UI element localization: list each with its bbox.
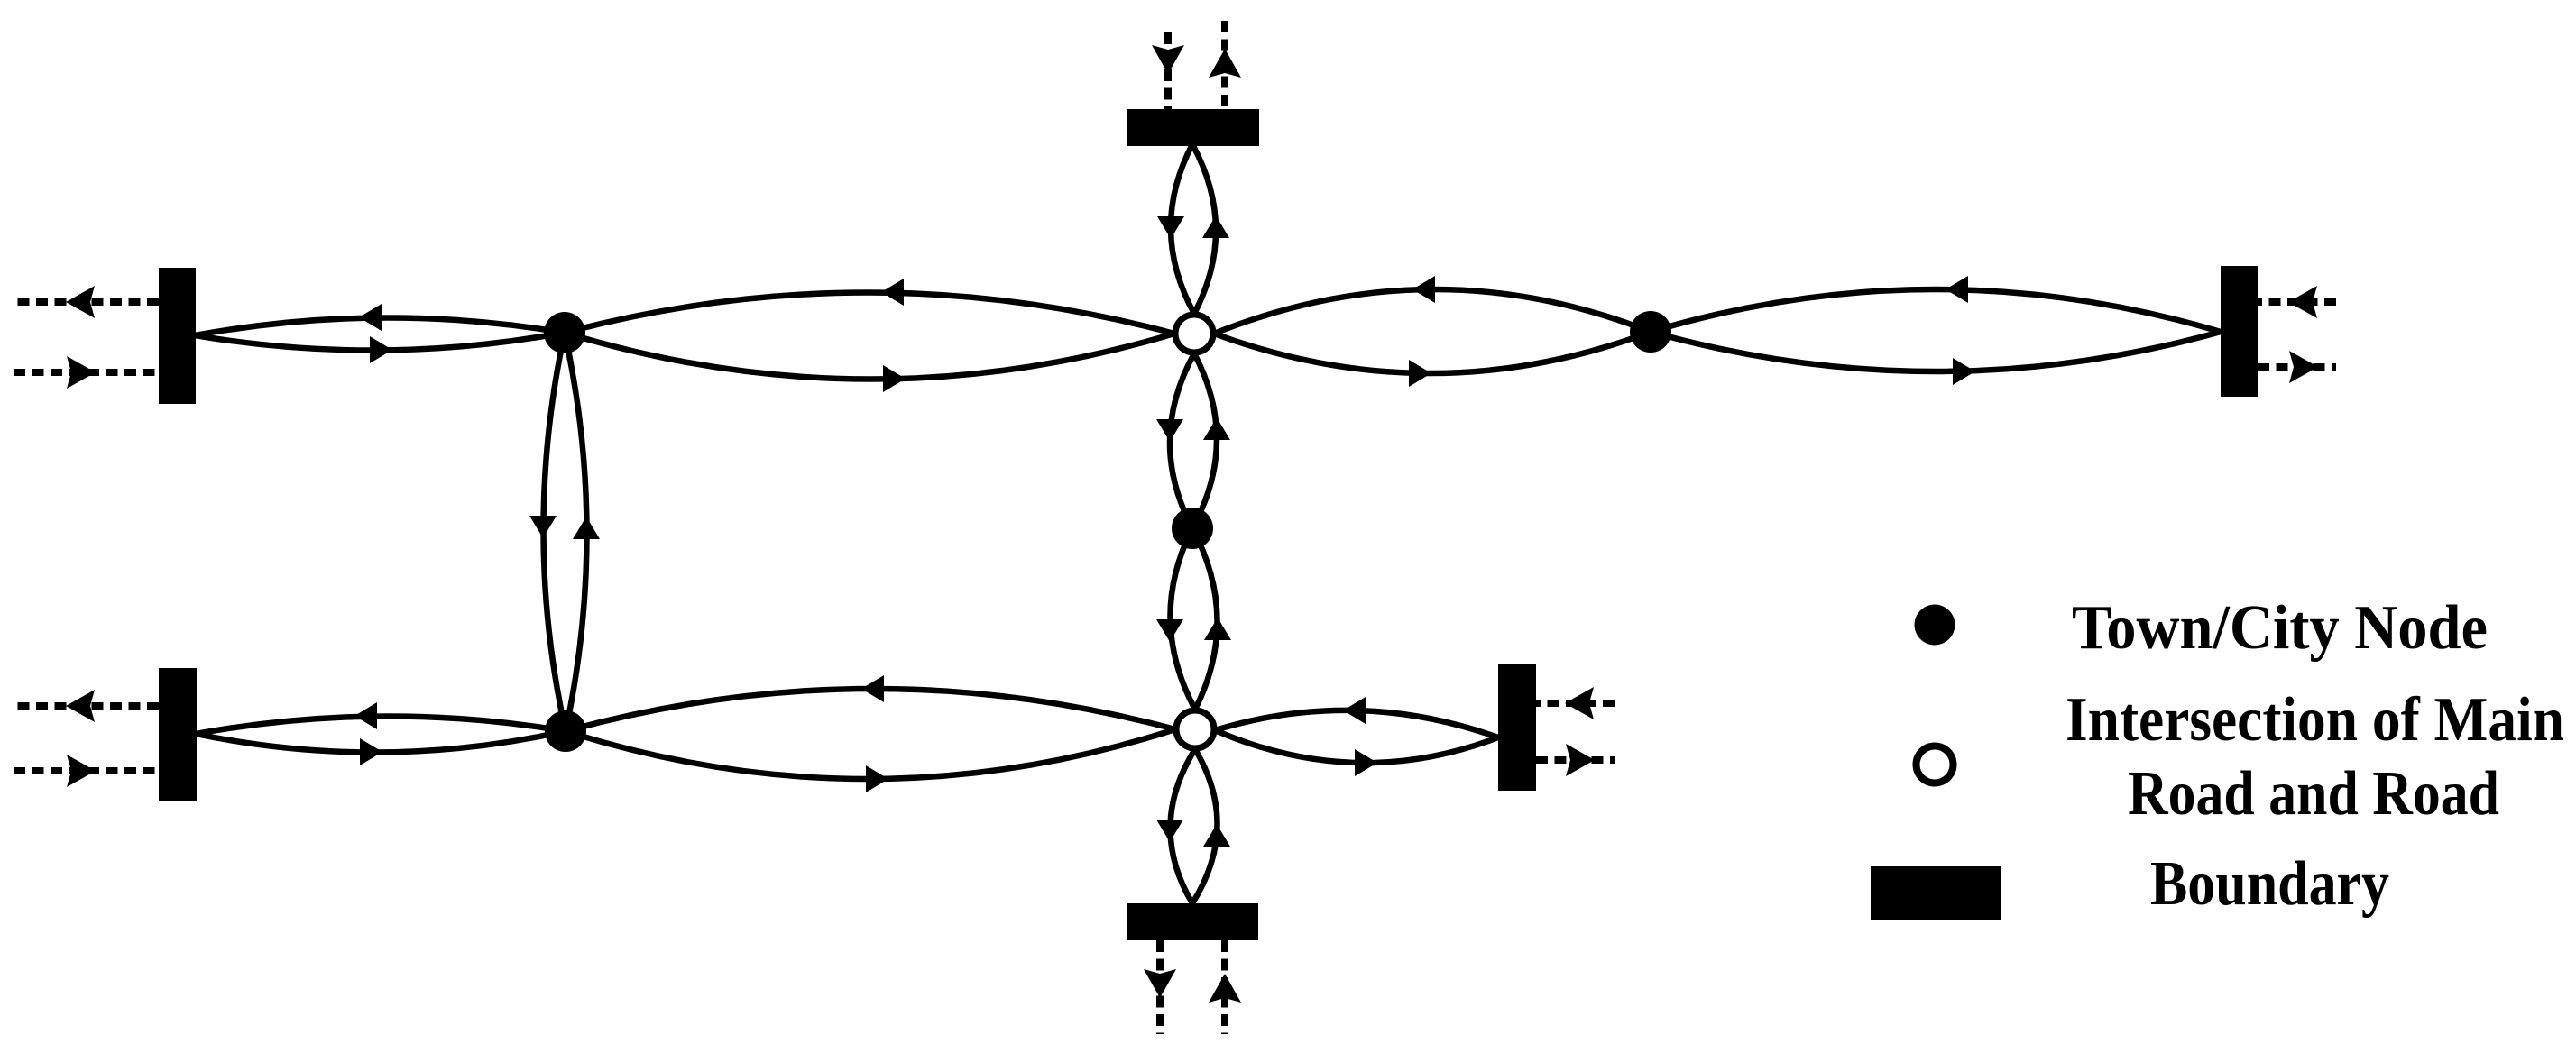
stealth arrow top boundary outbound (up) xyxy=(1209,49,1241,78)
arrow down on lens int1-to-C xyxy=(1156,419,1183,442)
wire road lens A-to-int1 bottom arc xyxy=(565,333,1174,380)
wire road lens int2-to-bottom-boundary right arc xyxy=(1192,749,1218,903)
arrow right on lens A-to-int1 xyxy=(883,365,906,392)
stealth arrow upper-left outbound (left) xyxy=(66,286,95,318)
arrow right on lens int2-to-lowerright-boundary xyxy=(1355,749,1377,776)
wire road lens int2-to-lowerright-boundary bottom arc xyxy=(1215,730,1498,763)
arrow up on lens C-to-int2 xyxy=(1204,618,1231,640)
wire road lens left-boundary-to-A bottom arc xyxy=(195,333,565,351)
town/city node B xyxy=(1630,311,1671,353)
town/city node A xyxy=(544,312,585,353)
town/city node C xyxy=(1172,508,1213,549)
wire road lens C-to-int2 left arc xyxy=(1170,528,1195,710)
arrow left on lens int1-to-B xyxy=(1412,276,1435,303)
wire road lens A-to-int1 top arc xyxy=(565,292,1174,334)
boundary bottom center xyxy=(1127,903,1258,940)
intersection node int2 xyxy=(1176,710,1214,748)
wire road lens int2-to-bottom-boundary left arc xyxy=(1170,749,1195,903)
wire road lens int1-to-B bottom arc xyxy=(1214,332,1651,373)
legend intersection symbol xyxy=(1917,746,1954,783)
stealth arrow upper-right outbound (right) xyxy=(2289,351,2318,383)
svg-text:Intersection of Main: Intersection of Main xyxy=(2065,685,2564,755)
dashed external link lower-right boundary outbound xyxy=(1536,756,1615,764)
dashed external link upper-left boundary outbound xyxy=(14,298,159,306)
arrow down on lens A-to-D xyxy=(529,516,557,538)
dashed external link lower-right boundary inbound xyxy=(1536,700,1615,707)
legend boundary symbol xyxy=(1871,866,2001,920)
wire road lens top-boundary-to-int1 right arc xyxy=(1192,144,1216,314)
dashed external link upper-right boundary inbound xyxy=(2258,298,2336,306)
wire road lens C-to-int2 right arc xyxy=(1192,528,1218,710)
arrow left on lens left-boundary-to-A xyxy=(359,304,382,331)
stealth arrow bottom boundary outbound (down) xyxy=(1144,969,1176,998)
wire road lens int1-to-C left arc xyxy=(1170,353,1194,528)
wire road lens top-boundary-to-int1 left arc xyxy=(1171,144,1194,314)
wire road lens lowerleft-boundary-to-D top arc xyxy=(196,716,566,734)
wire road lens B-to-right-boundary bottom arc xyxy=(1651,332,2221,371)
wire road lens A-to-D right arc xyxy=(565,333,587,731)
arrow left on lens D-to-int2 xyxy=(861,675,884,702)
arrow up on lens A-to-D xyxy=(573,517,600,539)
wire road lens B-to-right-boundary top arc xyxy=(1651,289,2221,332)
arrow down on lens int2-to-bottom-boundary xyxy=(1156,820,1183,842)
svg-text:Boundary: Boundary xyxy=(2150,849,2389,919)
stealth arrow bottom boundary inbound (up) xyxy=(1209,974,1241,1003)
arrow left on lens A-to-int1 xyxy=(881,279,904,306)
boundary upper left xyxy=(159,268,196,404)
stealth arrow lower-left inbound (right) xyxy=(67,755,96,787)
wire road lens D-to-int2 bottom arc xyxy=(566,729,1175,779)
wire road lens A-to-D left arc xyxy=(543,333,566,731)
dashed external link lower-left boundary inbound xyxy=(14,767,159,774)
stealth arrow lower-left outbound (left) xyxy=(66,690,95,722)
wire road lens int1-to-C right arc xyxy=(1192,353,1217,528)
arrow down on lens top-boundary-to-int1 xyxy=(1157,216,1184,239)
boundary lower left xyxy=(159,668,197,801)
arrow right on lens lowerleft-boundary-to-D xyxy=(360,738,382,765)
dashed external link bottom boundary outbound xyxy=(1156,940,1164,1034)
arrow right on lens D-to-int2 xyxy=(866,765,888,792)
intersection node int1 xyxy=(1175,315,1213,353)
arrow up on lens top-boundary-to-int1 xyxy=(1202,215,1229,238)
town/city node D xyxy=(545,710,586,752)
dashed external link bottom boundary inbound xyxy=(1221,940,1228,1034)
arrow left on lens B-to-right-boundary xyxy=(1946,276,1968,303)
stealth arrow lower-right inbound (left) xyxy=(1565,687,1594,719)
boundary lower right xyxy=(1498,664,1536,791)
dashed external link top boundary outbound xyxy=(1221,21,1228,109)
wire road lens int1-to-B top arc xyxy=(1214,289,1651,334)
arrow up on lens int2-to-bottom-boundary xyxy=(1203,824,1230,847)
arrow right on lens left-boundary-to-A xyxy=(370,336,392,363)
wire road lens left-boundary-to-A top arc xyxy=(195,317,565,335)
stealth arrow top boundary inbound (down) xyxy=(1152,45,1184,74)
dashed external link lower-left boundary outbound xyxy=(14,702,159,710)
wire road lens lowerleft-boundary-to-D bottom arc xyxy=(196,731,566,753)
arrow down on lens C-to-int2 xyxy=(1156,619,1183,642)
dashed external link upper-left boundary inbound xyxy=(14,369,159,376)
arrow right on lens B-to-right-boundary xyxy=(1953,358,1975,385)
stealth arrow lower-right outbound (right) xyxy=(1566,744,1595,776)
arrow left on lens lowerleft-boundary-to-D xyxy=(354,702,377,729)
svg-text:Town/City Node: Town/City Node xyxy=(2072,593,2488,663)
svg-text:Road and Road: Road and Road xyxy=(2128,759,2499,829)
dashed external link upper-right boundary outbound xyxy=(2258,363,2336,371)
arrow left on lens int2-to-lowerright-boundary xyxy=(1343,697,1366,724)
stealth arrow upper-left inbound (right) xyxy=(67,356,96,389)
wire road lens D-to-int2 top arc xyxy=(566,689,1175,731)
stealth arrow upper-right inbound (left) xyxy=(2288,286,2317,318)
boundary upper right xyxy=(2221,266,2258,397)
legend town/city node symbol xyxy=(1915,605,1955,646)
dashed external link top boundary inbound xyxy=(1164,32,1172,109)
wire road lens int2-to-lowerright-boundary top arc xyxy=(1215,710,1498,737)
arrow right on lens int1-to-B xyxy=(1409,360,1431,387)
boundary top center xyxy=(1127,109,1259,146)
arrow up on lens int1-to-C xyxy=(1203,417,1230,440)
